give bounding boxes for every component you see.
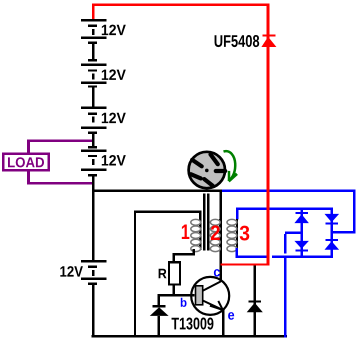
label 3: [240, 226, 250, 241]
label e: [228, 312, 234, 320]
load box: [3, 154, 48, 170]
wire battery connector: [88, 134, 97, 149]
wire winding1 to resistor: [173, 253, 195, 255]
transformer core: [203, 193, 210, 250]
wire battery connector: [92, 88, 94, 107]
wire winding2 collector vertical: [220, 192, 222, 282]
winding L1: [191, 219, 202, 252]
wire bridge top rail: [236, 207, 333, 210]
label B3 12V: [102, 113, 126, 123]
wire bridge bottom rail left: [236, 255, 267, 257]
wire bottom rail: [92, 335, 288, 338]
wire mid rail black: [92, 190, 222, 193]
wire winding3 bottom stub blue: [236, 248, 239, 256]
wire purple load bottom vertical: [27, 171, 30, 184]
label c: [214, 269, 220, 276]
wire blue right vertical: [353, 192, 356, 233]
transistor Q1 T13009: [191, 277, 229, 315]
wire primary top horizontal: [134, 210, 202, 212]
diode D7: [325, 239, 340, 250]
wire bridge left leg: [300, 210, 303, 256]
wire red to battery plus: [92, 6, 94, 19]
diode D4: [294, 212, 309, 223]
wire mid rail to battery B5: [92, 192, 94, 260]
wire mid rail blue: [222, 190, 355, 193]
label B1 12V: [102, 25, 126, 35]
wire bridge right mid horizontal: [333, 231, 355, 234]
diode D6: [325, 214, 340, 225]
label 1: [182, 225, 190, 239]
wire purple top horizontal: [27, 140, 92, 142]
wire purple bottom horizontal: [27, 182, 92, 185]
winding L3: [227, 219, 238, 252]
wire red bottom horizontal: [221, 263, 270, 265]
wire to resistor top: [173, 253, 175, 262]
wire base horizontal: [158, 294, 195, 297]
wire red top: [92, 3, 269, 6]
diode D3: [247, 266, 263, 335]
diode D5: [294, 241, 309, 252]
diode D2: [150, 297, 169, 335]
label B4 12V: [102, 155, 126, 165]
diode D1 UF5408: [261, 35, 276, 47]
wire blue left mid vertical lower: [284, 258, 287, 338]
wire battery B5 to bottom rail: [92, 285, 94, 338]
rotation arrow: [224, 151, 237, 181]
wire resistor to base: [173, 286, 175, 297]
wire winding1 bottom stub: [193, 249, 196, 255]
label B5 12V: [60, 266, 83, 276]
label b: [181, 298, 187, 307]
battery B1 12V: [81, 19, 107, 44]
wire red right vertical: [266, 6, 269, 263]
label B2 12V: [102, 69, 126, 79]
wire winding1 top stub: [199, 213, 201, 220]
battery B4 12V: [81, 150, 107, 177]
wire bridge bottom rail right: [272, 255, 333, 257]
motor rotor: [189, 152, 226, 188]
winding L2: [210, 219, 221, 252]
label UF5408: [215, 35, 260, 47]
battery B3 12V: [81, 106, 107, 134]
label R: [159, 269, 167, 278]
wire purple load top vertical: [27, 140, 30, 154]
wire winding3 top stub blue: [236, 210, 239, 220]
resistor R: [169, 262, 180, 284]
label T13009: [172, 318, 214, 330]
wire battery connector: [88, 44, 97, 62]
battery B2 12V: [81, 64, 107, 88]
wire left vertical to bottom rail: [134, 210, 136, 335]
label LOAD: [8, 157, 44, 167]
wire blue left mid vertical upper: [284, 234, 287, 253]
label 2: [211, 225, 220, 240]
wire bridge right leg: [330, 210, 333, 256]
wire emitter to bottom rail: [222, 310, 224, 335]
battery B5 12V: [81, 260, 107, 285]
wire battery connector: [92, 176, 94, 192]
wire bridge left mid horizontal: [285, 232, 303, 234]
